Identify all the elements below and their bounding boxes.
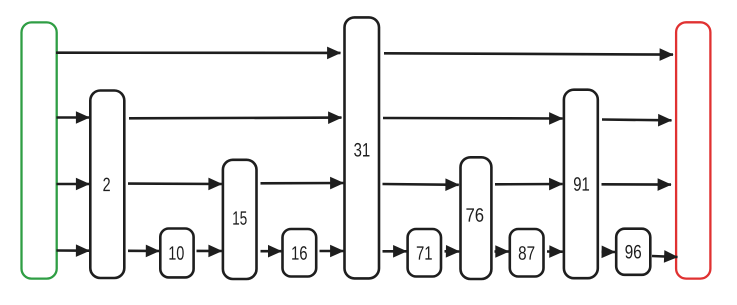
node 87 <box>510 229 544 277</box>
node 76 <box>461 157 492 279</box>
head node (green) <box>22 22 57 278</box>
wire L4 2 to 10 <box>128 250 159 253</box>
wire L1 head to 31 <box>56 51 341 54</box>
node 10 <box>160 229 193 278</box>
node 2 <box>90 91 124 279</box>
wire L4 91 to 96 <box>602 251 616 254</box>
wire L4 96 to tail <box>652 256 678 257</box>
wire L4 16 to 31 <box>320 250 344 253</box>
wire L2 31 to 91 <box>383 117 563 120</box>
node 16 <box>283 229 317 277</box>
node 71 <box>408 229 441 277</box>
node 31 <box>345 17 380 278</box>
wire L3 76 to 91 <box>495 183 563 186</box>
tail node (red) <box>676 22 710 278</box>
wire L2 91 to tail <box>602 118 672 121</box>
wire L2 2 to 31 <box>129 116 342 119</box>
wire L3 head to 2 <box>57 183 90 186</box>
wire L3 91 to tail <box>602 183 672 186</box>
wire L2 head to 2 <box>57 116 90 119</box>
wire L4 head to 2 <box>57 249 90 252</box>
wire L1 31 to tail <box>384 53 673 54</box>
node 15 <box>223 160 257 279</box>
wire L4 76 to 87 <box>495 250 509 253</box>
wire L4 31 to 71 <box>383 250 407 253</box>
wire L4 87 to 91 <box>547 250 563 253</box>
wire L3 31 to 76 <box>383 183 459 186</box>
wire L3 2 to 15 <box>128 182 222 185</box>
wire L4 71 to 76 <box>445 250 460 253</box>
wire L3 15 to 31 <box>261 182 344 185</box>
node 91 <box>564 90 598 279</box>
node 96 <box>616 229 650 275</box>
wire L4 15 to 16 <box>261 250 282 253</box>
wire L4 10 to 15 <box>197 250 222 253</box>
